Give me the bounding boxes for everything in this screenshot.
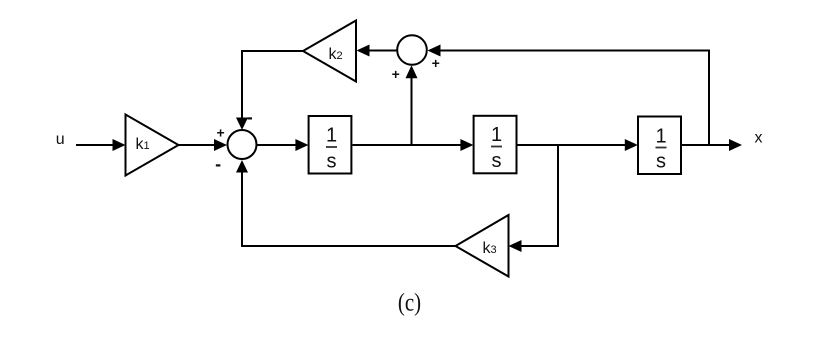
svg-text:x: x xyxy=(755,130,763,147)
wire I2 to integrator I3 xyxy=(518,139,638,151)
wire node A up to summing junction S2 xyxy=(406,65,418,145)
wire S2 to gain k2 xyxy=(357,45,397,57)
svg-text:s: s xyxy=(327,151,337,173)
summing junction S2 xyxy=(397,35,427,65)
wire S1 to integrator block I1 xyxy=(257,139,308,151)
summing junction S1 xyxy=(228,130,257,159)
label k1 xyxy=(136,136,150,153)
svg-text:-: - xyxy=(247,107,253,127)
svg-text:1: 1 xyxy=(491,124,502,146)
integrator block I2 (1/s) xyxy=(474,116,517,174)
label k2 xyxy=(329,46,343,63)
svg-text:s: s xyxy=(656,151,666,173)
integrator block I3 (1/s) xyxy=(638,117,681,175)
plus sign at S1 left input xyxy=(217,125,225,141)
minus sign at S1 bottom input xyxy=(215,154,221,174)
integrator block I1 (1/s) xyxy=(309,116,352,174)
label k3 xyxy=(483,240,497,257)
svg-text:+: + xyxy=(217,125,225,141)
wire node B down to gain k3 xyxy=(509,145,559,252)
svg-text:(c): (c) xyxy=(398,289,421,317)
label 1/s of I3 xyxy=(655,126,666,173)
output label x xyxy=(755,130,763,147)
gain k3 xyxy=(456,215,509,277)
input label u xyxy=(56,131,65,148)
svg-text:1: 1 xyxy=(326,125,337,147)
wire u to gain k1 xyxy=(76,139,126,151)
svg-text:1: 1 xyxy=(655,126,666,148)
wire k1 to summing junction S1 xyxy=(179,139,228,151)
label 1/s of I2 xyxy=(491,124,502,172)
minus sign at S1 top input xyxy=(247,107,253,127)
svg-text:-: - xyxy=(215,154,221,174)
wire node C up and left to S2 right input xyxy=(428,45,710,146)
svg-text:+: + xyxy=(392,66,400,82)
wire k3 to S1 bottom input xyxy=(236,160,456,246)
gain k2 xyxy=(303,21,356,82)
label 1/s of I1 xyxy=(326,125,337,173)
svg-text:u: u xyxy=(56,131,65,148)
plus sign at S2 bottom input xyxy=(392,66,400,82)
svg-text:+: + xyxy=(432,55,440,71)
gain k1 xyxy=(126,115,179,176)
svg-text:s: s xyxy=(492,150,502,172)
plus sign at S2 right input xyxy=(432,55,440,71)
wire I3 to output x xyxy=(682,139,742,151)
wire k2 to S1 top input xyxy=(236,51,303,130)
wire I1 to integrator I2 xyxy=(353,139,474,151)
caption (c) xyxy=(398,289,421,317)
